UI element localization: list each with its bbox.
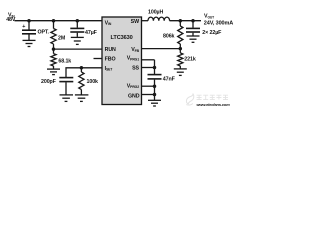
svg-text:221k: 221k — [184, 56, 196, 62]
node junction dot 806k top — [179, 19, 183, 23]
ground (221k) — [174, 69, 187, 76]
op-amp U1 LTC3630 IC body — [102, 17, 142, 105]
wire VOUT rail — [170, 20, 202, 22]
capacitor OPT input (polarized) — [22, 21, 50, 40]
svg-text:FBO: FBO — [105, 57, 116, 63]
wire VFB — [142, 48, 181, 50]
wire SW — [142, 20, 149, 22]
node junction dot SS — [153, 66, 157, 70]
svg-text:LTC3630: LTC3630 — [110, 35, 132, 41]
svg-text:24V, 300mA: 24V, 300mA — [204, 20, 234, 26]
svg-text:47µF: 47µF — [85, 30, 98, 36]
wire GND stub — [142, 94, 155, 96]
node junction dot 22uF top — [191, 19, 195, 23]
wire FBO stub — [94, 58, 103, 60]
resistor 2M — [51, 21, 56, 49]
capacitor C 47nF — [148, 75, 176, 83]
wire VPRG1 stub — [142, 59, 155, 61]
node junction dot GND — [153, 93, 157, 97]
ground (GND pin) — [148, 100, 161, 106]
capacitor C 200pF — [41, 78, 73, 95]
resistor 100k — [79, 68, 84, 95]
svg-text:GND: GND — [128, 94, 140, 100]
svg-text:SW: SW — [131, 19, 139, 25]
svg-text:+: + — [22, 24, 25, 30]
resistor 806k — [178, 21, 183, 49]
node junction dot 2M top — [52, 19, 56, 23]
wire vertical SS/VPRG1 to cap — [154, 60, 156, 74]
ground (22uF) — [187, 36, 200, 42]
svg-text:100µH: 100µH — [148, 10, 163, 16]
svg-text:OPT.: OPT. — [38, 29, 50, 35]
wire RUN — [54, 48, 103, 50]
svg-text:100k: 100k — [87, 79, 99, 85]
svg-text:2× 22µF: 2× 22µF — [202, 30, 222, 36]
svg-text:200pF: 200pF — [41, 79, 57, 85]
node junction dot 100k/ISET — [80, 66, 84, 70]
wire top VIN rail — [15, 20, 103, 22]
wire SS stub — [142, 67, 155, 69]
node junction dot RUN divider — [52, 47, 56, 51]
resistor 221k — [178, 49, 183, 69]
svg-text:48V: 48V — [6, 17, 16, 23]
svg-text:68.1k: 68.1k — [58, 59, 71, 65]
capacitor C 47uF — [70, 21, 97, 37]
svg-text:2M: 2M — [58, 36, 66, 42]
resistor 68.1k — [51, 49, 56, 69]
node VIN label — [6, 12, 16, 23]
wire VPRG2 stub — [142, 85, 155, 87]
svg-text:SS: SS — [132, 66, 139, 72]
ground (100k) — [75, 95, 89, 102]
svg-text:www.elecfans.com: www.elecfans.com — [197, 102, 231, 107]
watermark logo elecfans — [186, 94, 194, 105]
svg-text:806k: 806k — [163, 33, 175, 39]
capacitor C 2x22uF — [186, 21, 222, 36]
node junction dot 47uF top — [76, 19, 80, 23]
svg-text:RUN: RUN — [105, 47, 116, 53]
svg-text:47nF: 47nF — [163, 76, 176, 82]
node junction dot VPRG2 — [153, 84, 157, 88]
wire vertical cap to ground — [154, 80, 156, 100]
node VOUT label — [204, 14, 234, 27]
node junction dot VFB — [179, 47, 183, 51]
ground (200pF) — [60, 95, 74, 102]
ground (47uF) — [71, 37, 84, 44]
ground (68.1k) — [47, 69, 60, 75]
ground (OPT cap) — [23, 40, 36, 46]
inductor L 100uH — [148, 17, 170, 21]
wire ISET — [66, 68, 102, 77]
node junction dot OPT — [27, 19, 31, 23]
